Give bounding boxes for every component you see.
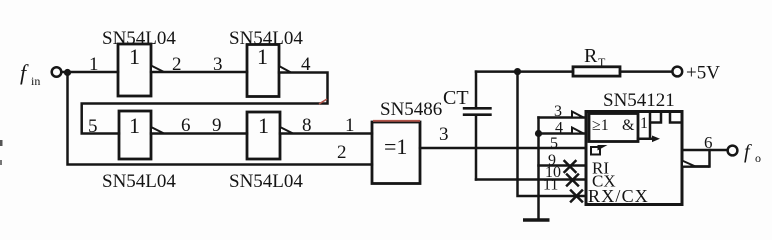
pin 4 input wedge [572, 128, 584, 134]
svg-text:1: 1 [258, 113, 269, 138]
svg-text:3: 3 [213, 54, 223, 75]
svg-text:3: 3 [439, 124, 449, 145]
svg-text:≥1: ≥1 [592, 117, 609, 134]
wire to pin 4 [539, 132, 587, 135]
svg-text:R: R [584, 45, 598, 67]
svg-text:2: 2 [337, 142, 347, 163]
no-connect cross pin11 [571, 191, 582, 202]
svg-text:+5V: +5V [686, 63, 720, 84]
junction dot pin4 [535, 130, 542, 137]
monostable U6 SN54121 [586, 90, 682, 206]
svg-text:SN54121: SN54121 [603, 90, 675, 111]
wire +5V rail [476, 70, 573, 73]
svg-text:SN5486: SN5486 [380, 99, 442, 120]
svg-text:6: 6 [181, 115, 191, 136]
inverter U2 SN54L04 [229, 28, 303, 97]
wire f_in bottom to XOR pin2 [68, 73, 373, 165]
svg-text:2: 2 [172, 54, 182, 75]
node f_o output terminal [728, 141, 761, 165]
svg-text:1: 1 [129, 44, 140, 69]
wire pins 3,4,9 common to ground [537, 118, 540, 220]
wire to pin 3 [539, 116, 587, 119]
wire RT to +5V [620, 70, 672, 73]
scan speck left edge upper [0, 140, 3, 146]
svg-text:RX/CX: RX/CX [588, 186, 649, 206]
svg-text:SN54L04: SN54L04 [102, 171, 176, 192]
node +5V terminal [672, 67, 682, 77]
inverter U3 SN54L04 [102, 111, 176, 192]
svg-text:CT: CT [443, 87, 469, 109]
no-connect cross pin9 [565, 161, 576, 172]
wire rail junction down to pin11 RX/CX [518, 72, 587, 196]
wire U6 out Q to f_o [682, 149, 728, 152]
wire U4 out to XOR pin1 [280, 132, 372, 135]
wire U2 out feedback to U3 in (pin4 to pin5) [82, 73, 328, 134]
svg-text:3: 3 [554, 103, 562, 120]
wire Q-bar stub [682, 165, 710, 168]
wire vertical join [708, 150, 711, 167]
wire XOR out to U6 pin5 (B input) [420, 147, 586, 150]
svg-text:1: 1 [257, 44, 268, 69]
pin 3 input wedge [572, 112, 584, 118]
svg-text:1: 1 [89, 54, 99, 75]
svg-text:11: 11 [543, 177, 558, 194]
pin 5 hysteresis symbol [591, 145, 608, 155]
inverter U1 SN54L04 [102, 28, 176, 96]
svg-text:1: 1 [345, 115, 355, 136]
ground [523, 218, 550, 221]
svg-text:5: 5 [88, 116, 98, 137]
XOR gate U5 SN5486 [372, 99, 442, 184]
svg-text:o: o [755, 151, 761, 165]
svg-text:=1: =1 [384, 134, 407, 159]
svg-text:SN54L04: SN54L04 [229, 171, 303, 192]
scan speck left edge lower [0, 160, 2, 165]
wire U3 out to U4 in [151, 132, 247, 135]
wire f_in to U1 pin1 [62, 71, 119, 74]
wire CT bottom to pin10 CX [476, 178, 586, 181]
no-connect cross pin10 [567, 175, 578, 186]
inverter U4 SN54L04 [229, 112, 303, 192]
wire to pin 9 RI [539, 164, 587, 167]
svg-text:in: in [31, 74, 40, 88]
red corner mark [319, 99, 327, 104]
svg-text:4: 4 [555, 120, 563, 137]
node f_in input terminal [20, 60, 71, 88]
svg-text:9: 9 [212, 115, 222, 136]
svg-text:1: 1 [129, 113, 140, 138]
junction dot rail/pin11 [514, 68, 521, 75]
svg-text:&: & [622, 117, 635, 134]
svg-text:5: 5 [550, 135, 558, 152]
svg-text:1: 1 [640, 115, 648, 132]
output wedge [682, 161, 696, 167]
capacitor CT [443, 72, 492, 180]
resistor RT [573, 45, 620, 76]
wire U1 out to U2 in [151, 71, 247, 74]
